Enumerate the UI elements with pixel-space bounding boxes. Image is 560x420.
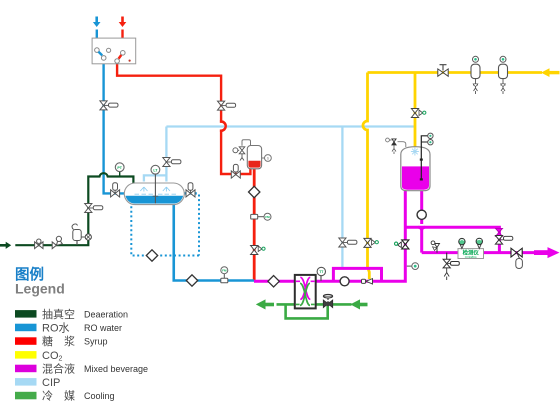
wire syrup vessel outlet down to junction — [253, 169, 256, 282]
node sight glass on deaeration riser — [85, 234, 91, 240]
wire RO tank right outlet to vacuum loop — [184, 192, 197, 194]
svg-text:Syrup: Syrup — [84, 337, 108, 347]
valve on syrup main (manual) — [218, 101, 236, 110]
svg-text:糖 浆: 糖 浆 — [42, 334, 75, 348]
deaeration tank shell — [124, 183, 184, 205]
wire CO2 main horizontal (yellow) — [368, 71, 543, 74]
wire RO switch diagonal (blue) — [98, 52, 103, 57]
svg-text:冷 媒: 冷 媒 — [42, 390, 75, 403]
legend swatch deaeration — [15, 310, 37, 318]
wire product bypass upper horizontal — [405, 227, 499, 252]
svg-text:RO水: RO水 — [42, 321, 70, 334]
valve on syrup line lower — [251, 246, 266, 255]
SYMBOLS — [35, 38, 272, 286]
wire deaeration vacuum line (dark green) — [15, 173, 133, 245]
svg-text:CIP: CIP — [42, 377, 60, 389]
wire product line to outlet — [422, 251, 540, 254]
valve syrup vessel vent valve — [233, 147, 245, 161]
svg-text:Deaeration: Deaeration — [84, 309, 128, 319]
pump vacuum loop pump — [146, 250, 157, 261]
CIP spray nozzles inside tank — [135, 187, 177, 194]
instrument analyzer sensor 2 — [476, 238, 482, 248]
wire PT instrument stem — [119, 171, 121, 176]
analyzer box (CO2 & Brix) — [458, 249, 484, 259]
carbonation tank shell — [401, 147, 430, 191]
svg-text:FM: FM — [265, 215, 270, 219]
pump carbonation loop pump — [340, 277, 349, 286]
pump syrup pump — [249, 186, 260, 197]
legend swatch cooling — [15, 392, 37, 400]
legend swatch CO2 — [15, 351, 37, 359]
svg-text:抽真空: 抽真空 — [42, 307, 75, 321]
legend swatch mixed beverage — [15, 365, 37, 373]
level transmitter probe on carbonation tank — [420, 133, 433, 180]
wire CIP drop to deaeration tank — [144, 127, 167, 182]
wire TT instrument stem — [320, 276, 322, 282]
CO2 filter regulator 2 — [499, 56, 508, 94]
svg-text:CO2&Brix: CO2&Brix — [465, 255, 478, 259]
SYMBOLS2 — [268, 56, 522, 308]
wire syrup inlet stub into box — [121, 30, 123, 52]
wire syrup switch diagonal (red) — [118, 55, 122, 59]
wire CIP main horizontal — [166, 125, 415, 127]
pump RO transfer pump — [186, 275, 197, 286]
LEGEND — [15, 266, 148, 403]
wire product outlet arrow (magenta, right) — [534, 247, 560, 258]
wire carbonation tank right outlet via pump — [418, 190, 425, 253]
valve on product bypass drop — [495, 228, 512, 244]
selector panel box — [92, 38, 136, 64]
pump carbonation tank discharge pump — [417, 210, 426, 219]
instrument TT after cooler — [317, 267, 325, 275]
wire cooling line right segment — [315, 303, 352, 306]
instrument S gauge on syrup vessel — [262, 155, 272, 162]
svg-text:Cooling: Cooling — [84, 391, 115, 401]
wire red switch diagonal overlay — [119, 55, 122, 59]
syrup buffer vessel — [242, 140, 262, 169]
legend swatch CIP — [15, 378, 37, 386]
node blue switch ports — [95, 48, 111, 60]
wire cooling supply arrow (green, left) — [350, 299, 367, 309]
PIPES — [0, 17, 560, 319]
wire cooling line left segment — [277, 303, 296, 306]
pump mixed beverage pump — [268, 276, 279, 287]
relief valve on carbonation tank top — [386, 138, 406, 154]
wire RO water main down from box — [104, 60, 125, 194]
valve control valve syrup vessel inlet — [231, 164, 240, 178]
wire CO2 drop to carbonation tank — [414, 73, 417, 148]
valve CO2 main hand valve — [438, 65, 448, 77]
instrument FM on syrup line — [251, 213, 271, 220]
wire RO water inlet stub into box — [96, 30, 98, 49]
wire mixed beverage main (magenta) — [254, 190, 405, 281]
wire CIP drop to carbonation loop — [341, 127, 343, 269]
wire CO2 drop to venturi — [363, 73, 369, 280]
valve drain valve with Y strainer on product line — [443, 253, 459, 280]
valve sampling valve on product line — [431, 241, 439, 253]
valve product shutoff with sample pot — [511, 248, 522, 268]
valve on CO2 line to tank — [411, 109, 426, 118]
svg-text:PT: PT — [117, 166, 122, 170]
wire blue switch diagonal overlay — [98, 52, 102, 56]
wire carbonation bypass bracket — [333, 268, 381, 281]
valve hand valve on deaeration feed — [35, 239, 43, 249]
venturi CO2 injector — [362, 279, 373, 284]
valve angle valve on deaeration feed — [52, 236, 62, 248]
node red switch ports — [115, 51, 125, 64]
instrument analyzer sensor 1 — [459, 238, 465, 248]
valve on carbonation tank feed riser — [395, 240, 409, 249]
wire deaeration inlet arrow (dark green, right) — [0, 242, 11, 249]
wire syrup main: box to vessel — [117, 63, 250, 174]
valve on RO main (manual, below box) — [100, 101, 118, 110]
instrument LT with probe — [151, 165, 160, 203]
legend swatch RO water — [15, 324, 37, 332]
valve control valve RO tank inlet — [111, 183, 120, 197]
wire syrup inlet arrow (red, down) — [119, 17, 127, 28]
valve cooling control valve — [323, 294, 332, 307]
wire CO2 inlet arrow (yellow, left) — [541, 68, 560, 77]
node red spare port — [129, 60, 131, 62]
wire vacuum circulation loop (dotted blue) — [131, 195, 199, 256]
svg-text:RO water: RO water — [84, 323, 122, 333]
wire cooling outlet arrow (green, left) — [256, 299, 274, 309]
wire RO tank bottom outlet to mix junction — [174, 204, 254, 281]
svg-text:FM: FM — [222, 269, 227, 273]
valve control valve RO tank right outlet — [186, 183, 195, 197]
heat exchanger (cooler) — [295, 275, 316, 309]
instrument PT — [115, 163, 124, 172]
valve on deaeration riser — [85, 204, 103, 213]
wire syrup hop over CIP overlay — [221, 120, 226, 132]
legend swatch syrup — [15, 337, 37, 345]
valve on CIP tank drop — [163, 158, 181, 167]
CIP spray ball in carbonation tank — [411, 148, 419, 156]
wire RO water inlet arrow (blue, down) — [93, 17, 101, 28]
filter trap on deaeration feed — [72, 224, 85, 245]
wire cooling bypass loop — [286, 304, 328, 318]
svg-text:Mixed beverage: Mixed beverage — [84, 364, 148, 374]
svg-text:Legend: Legend — [15, 281, 65, 297]
valve on CO2 venturi drop — [364, 238, 379, 247]
valve on CIP drop to loop — [339, 238, 357, 247]
instrument CT on feed riser — [407, 263, 419, 270]
svg-text:混合液: 混合液 — [42, 361, 75, 375]
CO2 filter regulator 1 — [471, 56, 480, 94]
instrument FM on RO line — [221, 267, 228, 283]
